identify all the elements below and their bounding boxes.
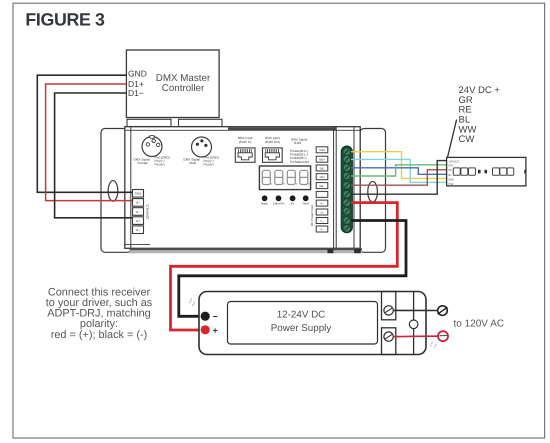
left terminal blocks GND D+ D- D+ D- (133, 190, 144, 234)
decoder panel line left (130, 127, 132, 249)
decoder bottom rail shade (130, 249, 363, 253)
svg-text:Male: Male (190, 161, 197, 165)
green terminal strip (341, 146, 352, 233)
wire cyan CW (351, 159, 447, 182)
svg-text:Pin7&8(GND): Pin7&8(GND) (290, 160, 309, 164)
svg-text:RE: RE (448, 168, 452, 172)
PSU inner label plate (228, 302, 378, 345)
decoder inner top line (125, 129, 360, 131)
decoder inner bottom line (125, 244, 150, 246)
display digits 8.8.8.8. (262, 170, 310, 184)
svg-text:D−: D− (136, 210, 140, 214)
AC red wire (393, 335, 438, 337)
svg-text:Back: Back (261, 202, 268, 206)
svg-text:D+: D+ (136, 201, 140, 205)
decoder body (125, 127, 360, 249)
power supply body (199, 292, 426, 355)
wire GND (controller to decoder) (37, 75, 136, 192)
strip end mark (524, 170, 526, 174)
red squiggle (431, 342, 437, 349)
RJ45 jack 2 label (265, 136, 280, 144)
wire blue BL (351, 168, 447, 175)
wire D1- (55, 93, 136, 218)
svg-text:485+: 485+ (319, 159, 325, 162)
svg-text:24G: 24G (319, 176, 324, 179)
decoder panel lines right (333, 127, 335, 249)
PSU center hole (409, 320, 418, 329)
svg-text:(RJ45 Out): (RJ45 Out) (265, 140, 280, 144)
svg-text:D+: D+ (136, 219, 140, 223)
svg-text:V+: V+ (320, 203, 324, 206)
pointer line to strip (447, 120, 456, 158)
decoder top dark vent bar (228, 127, 336, 130)
instruction text (46, 287, 153, 341)
svg-text:V−: V− (320, 220, 324, 223)
svg-text:F1: F1 (291, 202, 295, 206)
svg-text:Pin3(+): Pin3(+) (204, 163, 214, 167)
decoder right mounting ear (360, 129, 386, 253)
XLR female labels (134, 155, 170, 166)
svg-text:Enter/Fn: Enter/Fn (273, 202, 285, 206)
svg-text:Pin3(+): Pin3(+) (155, 163, 165, 167)
thick red wire to PSU (171, 203, 398, 330)
svg-text:(RJ45 In): (RJ45 In) (239, 140, 252, 144)
svg-text:24G: 24G (319, 167, 324, 170)
RJ45 jack 1 label (238, 136, 253, 144)
svg-text:WW: WW (448, 178, 454, 182)
strip pad labels (448, 159, 460, 186)
decoder left mounting ear (101, 129, 132, 253)
svg-text:−: − (213, 311, 218, 321)
svg-text:Power Supply: Power Supply (271, 323, 332, 334)
wire D1+ red (46, 84, 136, 201)
svg-text:V+: V+ (320, 211, 324, 214)
PSU left squiggle (189, 298, 194, 306)
svg-text:D1−: D1− (128, 88, 144, 98)
RJ45 jack 2 (263, 148, 283, 162)
svg-text:red = (+); black = (-): red = (+); black = (-) (51, 329, 148, 341)
svg-text:(DMX512): (DMX512) (146, 204, 150, 219)
decoder top tab 2 (179, 119, 223, 126)
svg-text:Female: Female (138, 161, 149, 165)
left ear oval slot (108, 181, 118, 202)
svg-text:RJ45: RJ45 (294, 141, 302, 145)
buttons (262, 195, 309, 201)
RJ45 pin assignment text (290, 138, 309, 164)
LED strip (447, 157, 526, 186)
PSU minus dot (201, 312, 210, 321)
svg-text:CW: CW (448, 182, 453, 186)
wire maroon RE (351, 170, 447, 185)
right ear oval slot (368, 182, 378, 203)
svg-text:+: + (213, 325, 218, 335)
XLR male labels (184, 155, 219, 166)
strip LED chips (453, 168, 513, 175)
right terminal blocks (316, 147, 328, 232)
svg-text:CW: CW (459, 134, 475, 145)
svg-text:DC Power Input: DC Power Input (310, 205, 314, 226)
wire black 24V+ (351, 161, 447, 195)
svg-text:GND: GND (128, 68, 147, 78)
svg-text:V−: V− (320, 228, 324, 231)
DMX Master Controller box (126, 50, 219, 118)
svg-text:to 120V AC: to 120V AC (454, 318, 505, 329)
svg-text:MB−: MB− (319, 185, 325, 188)
svg-text:Controller: Controller (162, 83, 205, 94)
svg-text:12-24V DC: 12-24V DC (277, 310, 325, 321)
AC red connector (438, 331, 448, 341)
svg-text:Next: Next (303, 202, 309, 206)
svg-text:D−: D− (136, 228, 140, 232)
strip screws (343, 148, 351, 233)
svg-text:BL: BL (448, 173, 452, 177)
svg-text:FIGURE 3: FIGURE 3 (25, 10, 105, 30)
PSU screw box 1 (382, 292, 414, 355)
PSU screw terminals (384, 306, 393, 342)
PSU plus dot (201, 325, 210, 334)
wire yellow WW (351, 152, 447, 179)
AC black connector (438, 306, 448, 316)
XLR female connector (142, 136, 162, 157)
AC black wire (393, 309, 437, 311)
decoder top tab 1 (127, 119, 171, 126)
thick black wire to PSU (179, 221, 406, 317)
svg-text:GND: GND (135, 192, 143, 196)
svg-text:GND: GND (319, 149, 325, 152)
wire green GR (351, 165, 447, 176)
XLR male connector (192, 137, 212, 157)
strip resistors (478, 170, 481, 174)
7-segment display (259, 166, 310, 190)
wire legend labels (459, 85, 501, 145)
RJ45 jack 1 (235, 148, 255, 162)
